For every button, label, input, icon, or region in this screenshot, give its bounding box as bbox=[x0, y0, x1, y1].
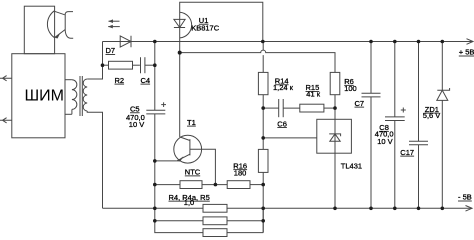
svg-text:ШИМ: ШИМ bbox=[25, 87, 65, 104]
svg-text:C7: C7 bbox=[355, 99, 365, 108]
svg-text:1,0: 1,0 bbox=[184, 198, 194, 207]
svg-text:TL431: TL431 bbox=[341, 161, 362, 170]
svg-text:C4: C4 bbox=[141, 76, 151, 85]
svg-text:T1: T1 bbox=[187, 118, 196, 127]
svg-text:KB817C: KB817C bbox=[191, 24, 220, 33]
svg-text:D7: D7 bbox=[106, 46, 116, 55]
svg-text:41 к: 41 к bbox=[306, 90, 320, 99]
svg-text:- 5В: - 5В bbox=[458, 193, 472, 202]
svg-text:C17: C17 bbox=[400, 148, 414, 157]
svg-text:5,6 V: 5,6 V bbox=[423, 111, 441, 120]
svg-text:+ 5В: + 5В bbox=[459, 48, 474, 57]
svg-text:C6: C6 bbox=[277, 119, 287, 128]
svg-text:1,24 к: 1,24 к bbox=[273, 83, 294, 92]
svg-text:10 V: 10 V bbox=[129, 120, 144, 129]
svg-text:NTC: NTC bbox=[185, 168, 201, 177]
svg-text:R2: R2 bbox=[115, 76, 125, 85]
svg-text:10 V: 10 V bbox=[377, 137, 392, 146]
